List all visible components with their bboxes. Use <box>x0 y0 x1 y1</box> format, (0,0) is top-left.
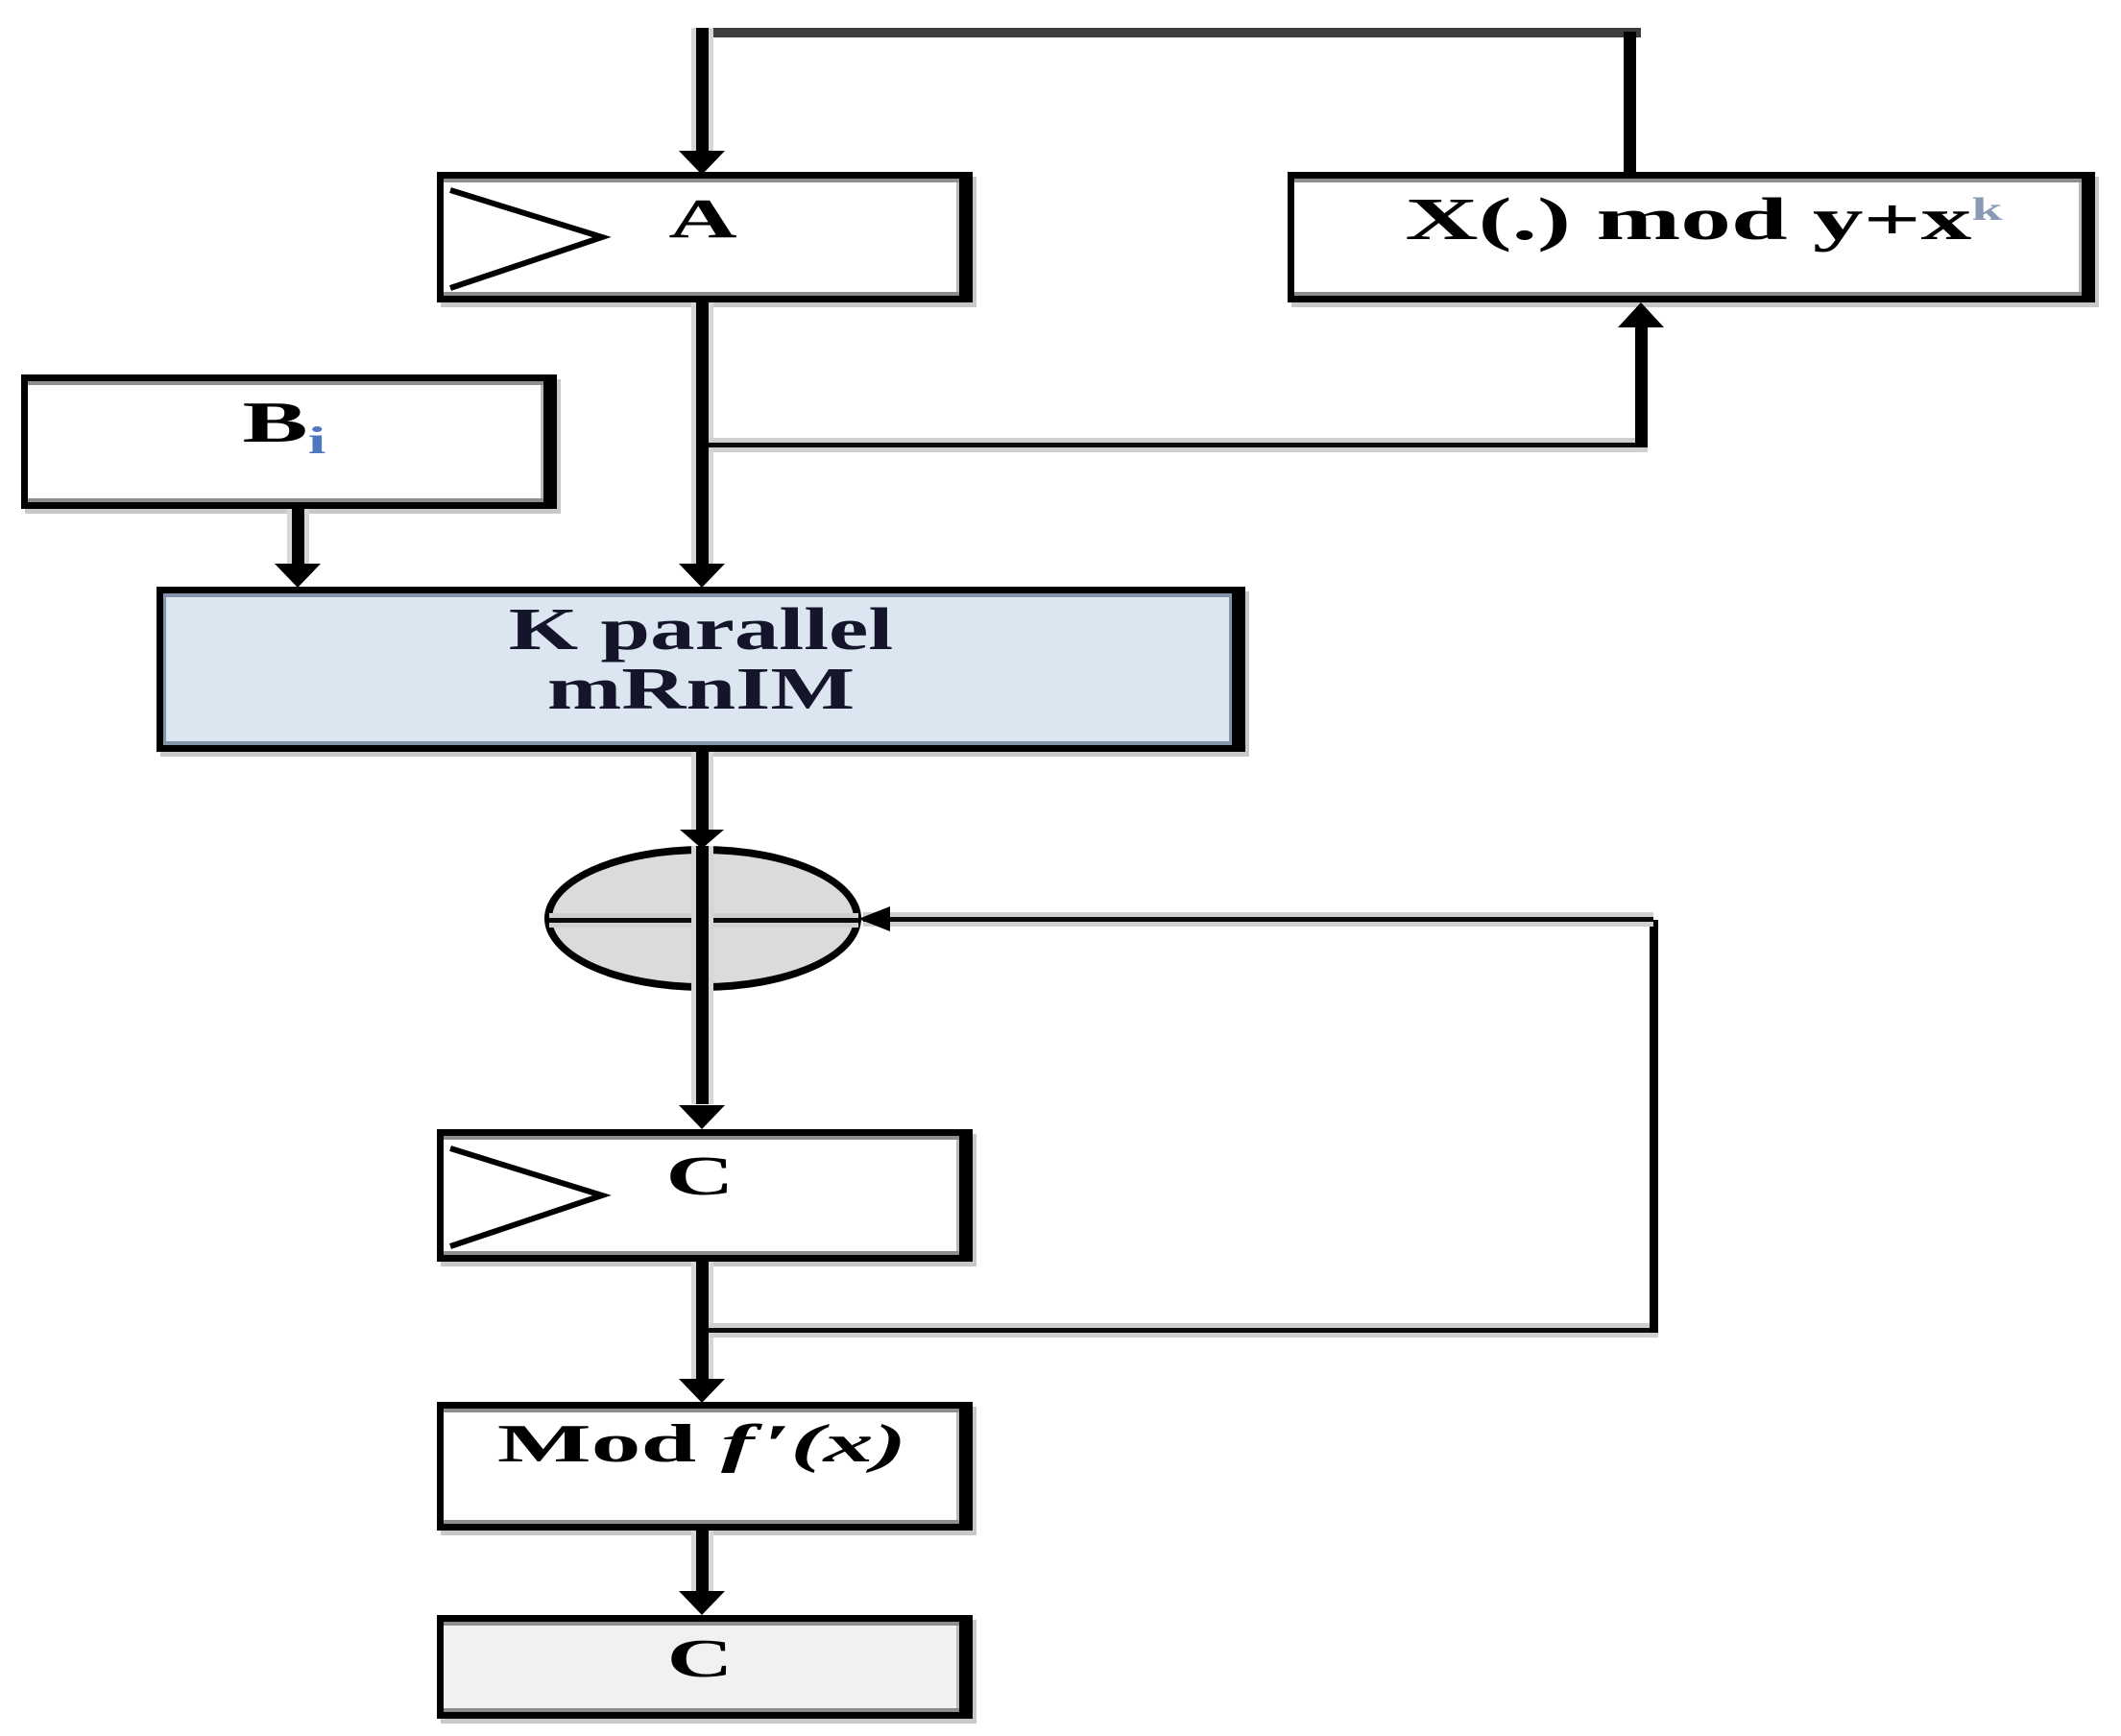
wire: top feedback horizontal <box>697 28 1641 37</box>
arrowhead into XOR top <box>680 830 724 849</box>
wire: branch horizontal from A output to X block <box>709 443 1648 447</box>
arrowhead into Mod block top <box>679 1379 725 1403</box>
wire: C output vertical to Mod <box>696 1262 709 1379</box>
label C <box>245 1148 1156 1204</box>
wire: feedback left vertical into A <box>696 28 709 154</box>
arrowhead up into X block bottom <box>1618 302 1664 327</box>
arrowhead into register A top <box>679 151 725 175</box>
wire: A output vertical to K <box>696 302 709 564</box>
clock triangle of register A <box>446 182 614 296</box>
label Mod f'(x) <box>206 1417 1197 1471</box>
wire: K output vertical to XOR <box>696 752 709 831</box>
wire: xor horizontal bar <box>549 918 858 923</box>
wire: C feedback bottom horizontal <box>709 1328 1658 1333</box>
arrowhead into K parallel top (from B_i) <box>275 564 321 588</box>
block Mod f'(x) <box>437 1402 973 1531</box>
label X(.) mod y+x^k <box>1018 190 2121 250</box>
clock triangle of register C <box>446 1141 614 1254</box>
label A <box>248 191 1159 247</box>
xor node <box>544 846 861 991</box>
arrowhead into K parallel top (from A) <box>679 564 725 588</box>
wire: C feedback right vertical <box>1650 920 1658 1333</box>
wire: vertical stub up into X block bottom <box>1635 327 1648 447</box>
block K parallel mRnIM <box>157 587 1245 752</box>
wire: Mod output vertical to output C <box>696 1531 709 1594</box>
output register C <box>437 1615 973 1719</box>
label C output <box>245 1632 1156 1686</box>
register A <box>437 172 973 302</box>
wire: B_i output vertical to K <box>292 509 304 564</box>
label B_i <box>0 394 739 460</box>
wire: xor vertical bar and output to C <box>696 846 709 1104</box>
register C <box>437 1129 973 1262</box>
wire: C feedback horizontal into XOR <box>863 917 1653 922</box>
register B_i <box>21 374 557 509</box>
wire: feedback right vertical into X block top <box>1624 32 1636 172</box>
block X(.) mod y+x^k <box>1288 172 2095 302</box>
arrowhead into output register C <box>679 1591 725 1615</box>
arrowhead into XOR right side <box>858 906 890 931</box>
label K parallel / mRnIM <box>0 600 1518 719</box>
arrowhead into register C top <box>679 1105 725 1129</box>
